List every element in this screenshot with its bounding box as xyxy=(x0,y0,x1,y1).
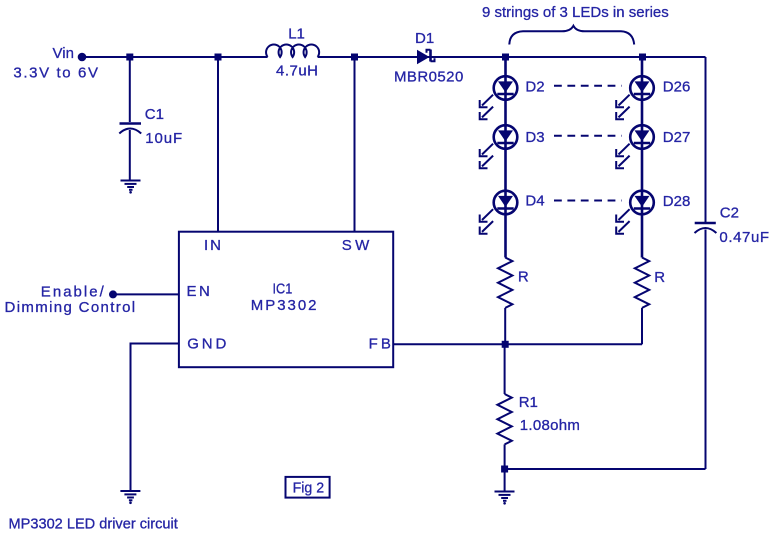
brace xyxy=(509,26,634,45)
svg-text:SW: SW xyxy=(342,237,370,254)
svg-text:R: R xyxy=(518,269,529,286)
LED D26 xyxy=(616,76,654,119)
svg-text:EN: EN xyxy=(187,283,210,300)
wire right rail upper xyxy=(705,57,707,222)
wire R1 top xyxy=(504,344,506,394)
svg-text:Dimming Control: Dimming Control xyxy=(5,299,136,316)
svg-text:R1: R1 xyxy=(519,394,538,411)
inductor L1 xyxy=(266,45,319,57)
wire dashed row 3 xyxy=(554,200,622,202)
node EN terminal dot xyxy=(109,290,117,298)
svg-text:Fig 2: Fig 2 xyxy=(293,480,325,497)
ground GND pin xyxy=(120,491,140,500)
wire top rail mid xyxy=(318,56,706,58)
node FB junction xyxy=(502,341,509,348)
wire LED column right xyxy=(641,57,644,258)
wire C1 branch upper xyxy=(129,57,131,122)
svg-text:Vin: Vin xyxy=(53,45,74,62)
wire dashed row 1 xyxy=(554,85,622,87)
node junction LED string 9 xyxy=(639,54,646,61)
wire GND pin xyxy=(131,344,179,491)
svg-text:10uF: 10uF xyxy=(145,130,182,147)
svg-text:C1: C1 xyxy=(145,106,164,123)
wire right rail lower xyxy=(705,230,707,470)
svg-text:4.7uH: 4.7uH xyxy=(276,63,318,80)
LED D4 xyxy=(480,191,518,234)
svg-text:0.47uF: 0.47uF xyxy=(719,229,769,246)
wire LED column left xyxy=(504,57,507,258)
svg-text:D27: D27 xyxy=(663,129,691,146)
wire bottom rail xyxy=(505,468,706,470)
node junction IN xyxy=(215,54,222,61)
svg-text:MP3302: MP3302 xyxy=(251,297,317,314)
svg-text:MBR0520: MBR0520 xyxy=(394,68,463,85)
svg-text:GND: GND xyxy=(187,335,226,352)
wire bottom stub to ground xyxy=(504,469,506,491)
LED D3 xyxy=(480,125,518,168)
svg-text:IC1: IC1 xyxy=(273,280,293,297)
svg-text:D4: D4 xyxy=(525,193,544,210)
wire EN pin xyxy=(113,293,179,295)
wire SW pin xyxy=(354,57,356,232)
wire R right down xyxy=(641,308,643,344)
svg-text:D26: D26 xyxy=(663,79,691,96)
svg-text:C2: C2 xyxy=(720,205,739,222)
svg-text:FB: FB xyxy=(369,335,391,352)
svg-text:L1: L1 xyxy=(288,25,305,42)
wire IN pin xyxy=(217,57,219,232)
node Vin terminal dot xyxy=(78,53,87,62)
svg-text:D28: D28 xyxy=(663,193,691,210)
svg-text:D2: D2 xyxy=(525,78,544,95)
ground R1 xyxy=(495,492,515,501)
svg-text:D3: D3 xyxy=(525,129,544,146)
capacitor C1 xyxy=(120,122,142,125)
IC IC1 MP3302 box xyxy=(179,232,393,368)
svg-text:9 strings of 3 LEDs in series: 9 strings of 3 LEDs in series xyxy=(482,4,669,21)
resistor R right xyxy=(635,258,649,308)
label Fig 2 box xyxy=(286,477,330,498)
svg-text:R: R xyxy=(654,269,665,286)
resistor R1 xyxy=(497,394,511,444)
LED D28 xyxy=(616,191,654,234)
node junction C1 xyxy=(126,54,133,61)
wire FB rail xyxy=(393,343,642,345)
wire dashed row 2 xyxy=(554,135,622,137)
svg-text:1.08ohm: 1.08ohm xyxy=(520,417,580,434)
LED D2 xyxy=(480,76,518,119)
resistor R left xyxy=(498,258,512,308)
svg-text:MP3302 LED driver circuit: MP3302 LED driver circuit xyxy=(9,516,179,533)
node junction SW xyxy=(351,54,358,61)
wire R1 bottom xyxy=(504,444,506,469)
ground C1 xyxy=(121,181,141,190)
wire top rail left xyxy=(82,56,268,58)
svg-text:Enable/: Enable/ xyxy=(41,283,105,300)
node junction LED string 1 xyxy=(502,54,509,61)
diode D1 xyxy=(417,50,430,64)
svg-text:3.3V to 6V: 3.3V to 6V xyxy=(13,65,98,82)
node bottom junction xyxy=(501,466,508,473)
wire R left to FB node xyxy=(504,308,506,344)
svg-text:IN: IN xyxy=(204,237,221,254)
svg-text:D1: D1 xyxy=(415,30,434,47)
LED D27 xyxy=(616,125,654,168)
capacitor C2 xyxy=(695,222,716,225)
